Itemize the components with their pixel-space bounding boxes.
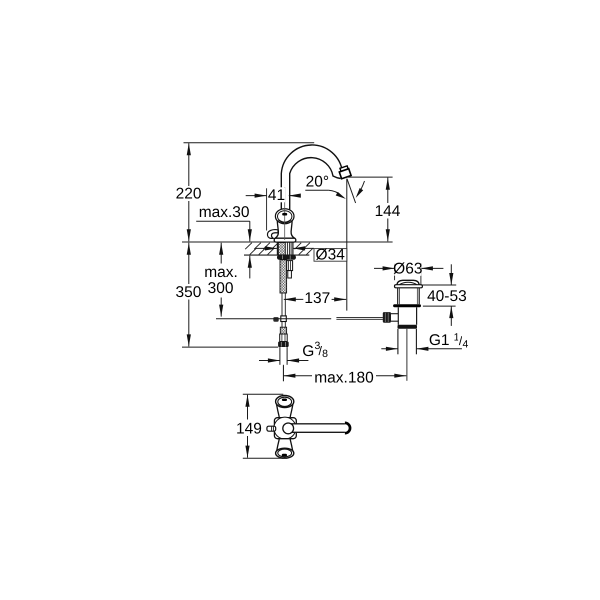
second connection piece	[287, 261, 293, 271]
dimension diameter 34 leader	[255, 247, 277, 249]
aerator outlet (20 deg tilt)	[338, 166, 351, 179]
handle top dash	[282, 213, 287, 216]
350 bottom reference line	[182, 346, 278, 348]
top view upper handle skirt	[276, 404, 293, 418]
svg-text:max.: max.	[204, 264, 238, 281]
spout pipe outer line and outer arc	[281, 145, 342, 210]
faucet body / handle skirt	[275, 218, 295, 239]
svg-text:137: 137	[304, 290, 330, 307]
drain body bottom rim	[398, 325, 418, 329]
pop-up rod knob (side view)	[267, 230, 278, 239]
svg-text:20°: 20°	[306, 174, 329, 191]
counter top line	[182, 241, 393, 243]
top view pop-up knob	[267, 426, 276, 431]
base flange on counter	[274, 238, 296, 242]
pop-up rod (thin pipe below hose)	[281, 293, 283, 316]
dimension 144	[387, 178, 389, 203]
top view hub	[274, 418, 296, 439]
handle centerline	[284, 187, 286, 240]
drain lever port	[391, 313, 398, 315]
hose end block	[280, 334, 288, 342]
counter bottom line	[244, 254, 309, 256]
water direction line at 20 deg	[347, 179, 356, 203]
top reference line (220 datum)	[184, 142, 315, 144]
faucet centerline extension	[282, 365, 284, 381]
drain flange dome	[397, 280, 419, 284]
horizontal reference line from spout outlet (144 datum)	[347, 176, 393, 178]
top view 149 top reference line	[243, 393, 283, 395]
G3/8 pipe	[279, 347, 281, 365]
svg-text:8: 8	[322, 348, 328, 360]
drain flange plate	[395, 285, 423, 288]
svg-text:max.30: max.30	[199, 204, 250, 221]
drain tailpipe G1 1/4 thread	[397, 329, 399, 355]
dimension 137	[284, 298, 304, 300]
dimension 220	[188, 143, 190, 186]
drain neck	[397, 288, 399, 304]
dimension G3/8	[259, 360, 280, 362]
top view lower handle ellipse	[276, 448, 294, 458]
top view lower handle dash	[282, 454, 287, 457]
top view escutcheon circle	[274, 417, 296, 439]
svg-text:G1: G1	[429, 332, 450, 349]
svg-text:350: 350	[175, 284, 201, 301]
top view upper handle ellipse	[276, 396, 294, 408]
svg-text:Ø34: Ø34	[316, 246, 346, 263]
svg-text:40-53: 40-53	[427, 288, 467, 305]
dimension 41	[266, 188, 268, 230]
svg-text:max.180: max.180	[314, 369, 374, 386]
svg-text:149: 149	[236, 421, 262, 438]
dimension 40-53	[421, 284, 457, 286]
dimension G1 1/4	[381, 348, 398, 350]
shank through counter hole	[276, 242, 278, 255]
horizontal actuating rod	[216, 318, 331, 320]
G3/8 nut	[278, 342, 289, 348]
flexible supply hose	[280, 260, 287, 293]
hose end hatched block	[280, 327, 286, 334]
dimension max.180	[282, 366, 284, 382]
drain centerline	[406, 329, 408, 381]
svg-text:G: G	[302, 343, 314, 360]
svg-text:4: 4	[462, 338, 468, 350]
dimension 350	[188, 243, 190, 284]
svg-text:Ø63: Ø63	[393, 260, 422, 277]
drain O-ring seal	[393, 304, 421, 307]
dimension 149	[247, 395, 249, 420]
pop-up rod knob left	[273, 317, 278, 322]
pop-up rod tee joint	[281, 316, 287, 322]
diameter 34 label box	[314, 249, 347, 262]
mounting nut	[277, 255, 296, 260]
top view lower handle skirt	[276, 439, 293, 453]
svg-text:300: 300	[208, 280, 234, 297]
dimension diameter 63	[374, 267, 395, 269]
svg-text:41: 41	[268, 187, 285, 204]
svg-text:220: 220	[176, 186, 202, 203]
drain lever knurled nut	[383, 312, 391, 323]
drain body	[397, 307, 399, 325]
top view spout tube	[290, 424, 345, 432]
dimension max.300	[220, 243, 222, 264]
spout pipe inner line and inner arc	[290, 158, 341, 210]
top view 149 bottom reference line	[243, 457, 283, 459]
handle top ellipse	[275, 209, 294, 224]
vertical line from spout outlet	[346, 179, 348, 311]
top view spout end cap	[345, 423, 350, 433]
counter hatching	[245, 243, 313, 255]
top view upper handle dash	[282, 399, 287, 402]
svg-text:144: 144	[375, 203, 401, 220]
